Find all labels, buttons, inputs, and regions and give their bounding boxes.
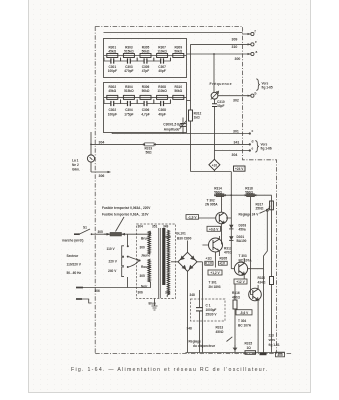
svg-text:45kΩ: 45kΩ: [108, 89, 116, 93]
measured voltage box +12V: [234, 279, 247, 284]
svg-text:40pF: 40pF: [158, 69, 165, 73]
resistor R304 515kΩ: [123, 85, 134, 99]
svg-text:305: 305: [98, 230, 104, 234]
resistor R302 45kΩ: [107, 85, 118, 99]
svg-text:300: 300: [140, 246, 146, 250]
svg-text:T 301: T 301: [209, 281, 217, 285]
label reglage du disjoncteur: [189, 340, 216, 349]
svg-text:S1: S1: [83, 226, 87, 230]
label R313 470: [224, 247, 232, 255]
svg-text:56Ω: 56Ω: [146, 150, 153, 154]
svg-text:+12 V: +12 V: [236, 280, 245, 284]
diode D303: [229, 223, 246, 231]
svg-text:R305: R305: [220, 257, 228, 261]
svg-text:du disjoncteur: du disjoncteur: [193, 344, 216, 348]
winding labels: [140, 235, 172, 289]
svg-text:e: e: [252, 146, 254, 150]
svg-text:40pF: 40pF: [158, 113, 165, 117]
svg-text:Réglage 24 V: Réglage 24 V: [239, 213, 260, 217]
resistor R307 110kΩ: [157, 45, 168, 57]
resistor R305 label and box: [218, 257, 227, 266]
svg-text:fig 1-61: fig 1-61: [269, 343, 280, 347]
transformer labels: [138, 225, 171, 306]
resistor R315 1 ohm: [245, 342, 256, 355]
ground bar terminal: [260, 353, 267, 356]
resistor R313 450 ohm: [216, 326, 233, 342]
svg-text:110kΩ: 110kΩ: [157, 89, 167, 93]
wire 304-right: [215, 146, 254, 156]
svg-text:47pF: 47pF: [142, 69, 149, 73]
resistor R306 50kΩ: [140, 85, 151, 99]
svg-text:223: 223: [269, 334, 275, 338]
svg-text:BA100: BA100: [237, 239, 247, 243]
trimmer capacitor C309 Amplitude: [163, 118, 186, 134]
svg-text:Fusible temporisé 0,63A , 110: Fusible temporisé 0,63A , 110V: [102, 212, 149, 216]
bridge rectifier GL101: [176, 232, 202, 353]
wire rail2 to R312 column: [187, 100, 191, 102]
capacitor C302 100pF: [104, 99, 121, 116]
svg-text:306: 306: [138, 291, 144, 295]
svg-text:240 V: 240 V: [108, 269, 117, 273]
svg-text:560Ω: 560Ω: [245, 190, 253, 194]
svg-text:175pF: 175pF: [124, 113, 133, 117]
switch marche/arret: [62, 226, 92, 243]
svg-text:f: f: [255, 30, 257, 34]
RC row 2 enclosure box: [104, 83, 187, 133]
resistor R314 560 ohm: [214, 187, 226, 197]
transformer core: [158, 228, 160, 298]
svg-text:Noir: Noir: [141, 285, 148, 289]
svg-text:e: e: [255, 40, 257, 44]
transformer TR1 dashed box: [137, 224, 176, 299]
svg-text:348: 348: [187, 327, 193, 331]
svg-text:220 V: 220 V: [109, 259, 118, 263]
svg-text:BC 107A: BC 107A: [238, 324, 252, 328]
resistor R316 450 ohm: [232, 284, 240, 353]
capacitor C1 1000uF: [191, 290, 226, 353]
measured voltage box +0,6V: [207, 226, 221, 231]
svg-text:-5,6 V: -5,6 V: [240, 311, 249, 315]
meter / test point diamond: [209, 151, 220, 172]
measured voltage box 5,6V: [236, 310, 252, 315]
svg-text:Fréquence: Fréquence: [210, 82, 233, 86]
potentiometer Frequence: [210, 54, 257, 100]
transistor T303 BC107A: [231, 254, 263, 279]
svg-text:309: 309: [232, 38, 238, 42]
svg-text:1kΩ: 1kΩ: [194, 116, 201, 120]
svg-text:302: 302: [233, 98, 239, 102]
wire 341 / 304-left (lamp line): [91, 140, 254, 146]
svg-text:fig 1-66: fig 1-66: [261, 147, 272, 151]
svg-text:Amplitude: Amplitude: [164, 127, 180, 131]
svg-text:348: 348: [190, 293, 196, 297]
svg-text:56kΩ: 56kΩ: [174, 89, 182, 93]
wire ground rail: [186, 352, 285, 354]
svg-text:349: 349: [163, 225, 169, 229]
RC row 1 rail wire: [104, 55, 186, 57]
wire 300: [187, 50, 258, 61]
resistor R303 515kΩ: [123, 45, 134, 57]
svg-text:515kΩ: 515kΩ: [124, 50, 134, 54]
svg-text:+1,2 V: +1,2 V: [210, 271, 220, 275]
svg-text:50...60 Hz: 50...60 Hz: [67, 271, 82, 275]
svg-text:1000µF: 1000µF: [206, 308, 217, 312]
resistor R318 560 ohm: [245, 187, 257, 289]
measured voltage box -1,9V: [186, 215, 199, 220]
svg-text:Brun: Brun: [141, 237, 148, 241]
transformer primary winding: [148, 231, 151, 254]
svg-text:300: 300: [235, 57, 241, 61]
svg-text:450Ω: 450Ω: [216, 330, 224, 334]
svg-text:100pF: 100pF: [108, 113, 117, 117]
diode D301 BA100: [229, 235, 247, 243]
resistor R319 56 ohm: [143, 143, 156, 155]
wire secondary to +24 riser: [167, 262, 178, 297]
fuse note text: [102, 206, 151, 232]
capacitor C305 47pF: [137, 58, 154, 74]
svg-text:4,7pF: 4,7pF: [141, 113, 149, 117]
svg-text:Jaune: Jaune: [141, 253, 150, 257]
svg-text:351: 351: [152, 225, 158, 229]
svg-text:56kΩ: 56kΩ: [174, 50, 182, 54]
svg-text:Ne 2: Ne 2: [72, 163, 79, 167]
transistor T304 BC107A: [238, 285, 261, 353]
capacitor C301 100pF: [104, 58, 121, 74]
svg-text:515kΩ: 515kΩ: [124, 89, 134, 93]
svg-text:a: a: [256, 50, 258, 54]
svg-text:+0,6 V: +0,6 V: [209, 227, 219, 231]
svg-text:-1,9 V: -1,9 V: [188, 215, 197, 219]
capacitor C310 33pF: [212, 99, 225, 150]
voltage selector: [107, 234, 141, 287]
wire node drop: [169, 99, 171, 103]
svg-text:450a: 450a: [239, 227, 246, 231]
svg-text:+1V: +1V: [219, 262, 226, 266]
svg-text:C309/1,5 8µF: C309/1,5 8µF: [163, 123, 182, 127]
svg-text:C 1: C 1: [206, 304, 211, 308]
svg-text:304: 304: [99, 141, 105, 145]
wire mains into primary: [137, 232, 151, 288]
svg-text:110kΩ: 110kΩ: [157, 50, 167, 54]
svg-text:c: c: [252, 129, 254, 133]
svg-text:Fig. 1-64. — Alimentation et: Fig. 1-64. — Alimentation et réseau RC d…: [71, 367, 268, 373]
svg-text:1Ω: 1Ω: [247, 346, 252, 350]
wire 309: [104, 30, 257, 42]
ground symbol left: [233, 345, 238, 351]
svg-text:2N 1893: 2N 1893: [209, 285, 221, 289]
RC row 1 enclosure box: [104, 39, 187, 78]
wire 306 (lamp return): [91, 171, 111, 178]
wire 310: [191, 40, 258, 49]
svg-text:b: b: [255, 92, 257, 96]
svg-text:T 304: T 304: [238, 319, 246, 323]
svg-text:vers: vers: [269, 338, 276, 342]
svg-text:BC 107A: BC 107A: [239, 258, 253, 262]
svg-text:GL101: GL101: [176, 232, 186, 236]
transistor T302 2N905A: [199, 195, 232, 244]
RC row 2 rail wire: [104, 96, 186, 98]
wire +24V feed: [191, 166, 246, 172]
svg-text:+10: +10: [212, 163, 218, 167]
svg-text:434Ω: 434Ω: [258, 280, 266, 284]
measured voltage box +1,2V: [208, 270, 222, 275]
svg-text:d: d: [252, 140, 254, 144]
svg-text:0,1V: 0,1V: [205, 262, 212, 266]
capacitor C307 40pF: [154, 58, 171, 74]
svg-text:341: 341: [234, 140, 240, 144]
svg-text:306: 306: [99, 174, 105, 178]
svg-text:50kΩ: 50kΩ: [142, 89, 150, 93]
svg-text:Réglage: Réglage: [189, 340, 202, 344]
resistor 1 ohm label and box: [205, 252, 216, 268]
svg-text:Noir: Noir: [165, 235, 172, 239]
svg-text:250Ω: 250Ω: [256, 206, 264, 210]
wire base rail y=195: [215, 194, 272, 196]
wire +24V vertical rail: [230, 172, 232, 269]
fuse: [104, 232, 137, 236]
wire node drop: [169, 58, 171, 62]
svg-text:33pF: 33pF: [217, 104, 224, 108]
wire Brun shield: [152, 299, 158, 311]
svg-text:100pF: 100pF: [108, 69, 117, 73]
label T301: [209, 281, 221, 290]
resistor R305 50kΩ: [140, 45, 151, 57]
wire 301: [112, 129, 254, 135]
capacitor C304 175pF: [121, 99, 138, 116]
svg-text:305: 305: [140, 274, 146, 278]
svg-text:+24 V: +24 V: [235, 167, 244, 171]
svg-text:Secteur: Secteur: [67, 254, 79, 258]
svg-text:110/220 V: 110/220 V: [67, 263, 82, 267]
svg-text:480Ω: 480Ω: [232, 295, 240, 299]
svg-text:305: 305: [277, 353, 283, 357]
svg-text:301: 301: [233, 130, 239, 134]
svg-text:470pF: 470pF: [124, 69, 133, 73]
svg-text:45kΩ: 45kΩ: [108, 50, 116, 54]
svg-text:560Ω: 560Ω: [214, 190, 222, 194]
schematic boundary frame (dash-dot): [95, 27, 291, 354]
svg-text:Fusible temporisé 0,063A , 22: Fusible temporisé 0,063A , 220V: [102, 206, 151, 210]
brace vers fig 1-66: [255, 141, 272, 153]
svg-text:110 V: 110 V: [107, 247, 116, 251]
svg-text:Glim.: Glim.: [72, 168, 80, 172]
svg-text:fig 1-65: fig 1-65: [262, 86, 273, 90]
glow lamp La1: [72, 132, 95, 172]
terminal 305 box: [276, 352, 285, 357]
svg-text:310: 310: [232, 45, 238, 49]
svg-text:+1Ω: +1Ω: [206, 257, 213, 261]
svg-text:2N 905A: 2N 905A: [205, 203, 218, 207]
capacitor C303 470pF: [121, 58, 138, 74]
svg-text:marche (arrêt): marche (arrêt): [62, 238, 83, 242]
svg-text:25/30 V: 25/30 V: [206, 313, 218, 317]
resistor R309 56kΩ: [173, 45, 184, 57]
resistor R312 1k: [189, 110, 202, 172]
capacitor C308 40pF: [154, 99, 171, 116]
label 223 vers fig: [269, 334, 280, 347]
svg-text:306: 306: [95, 289, 101, 293]
wire from 310 down: [190, 44, 192, 110]
resistor R310 56kΩ: [173, 85, 184, 99]
svg-text:La 1: La 1: [72, 159, 79, 163]
wire 305 label: [92, 230, 108, 234]
secteur label: [67, 254, 82, 275]
transformer secondary winding: [167, 230, 169, 295]
transistor T301 2N1893: [202, 236, 222, 256]
svg-text:50kΩ: 50kΩ: [142, 50, 150, 54]
svg-text:304: 304: [138, 225, 144, 229]
svg-text:304: 304: [232, 153, 238, 157]
mains neutral wire: [76, 288, 137, 294]
svg-text:Rouge: Rouge: [141, 265, 151, 269]
potentiometer R317 250 ohm Reglage 24V: [239, 195, 274, 352]
brace vers fig 1-65: [256, 79, 273, 91]
resistor R320 434 ohm: [258, 276, 274, 353]
svg-text:B30 C800: B30 C800: [177, 236, 192, 240]
resistor R301 45kΩ: [107, 45, 118, 57]
resistor R308 110kΩ: [157, 85, 168, 99]
capacitor C306 4,7pF: [137, 99, 154, 116]
earth stub: [76, 299, 92, 303]
